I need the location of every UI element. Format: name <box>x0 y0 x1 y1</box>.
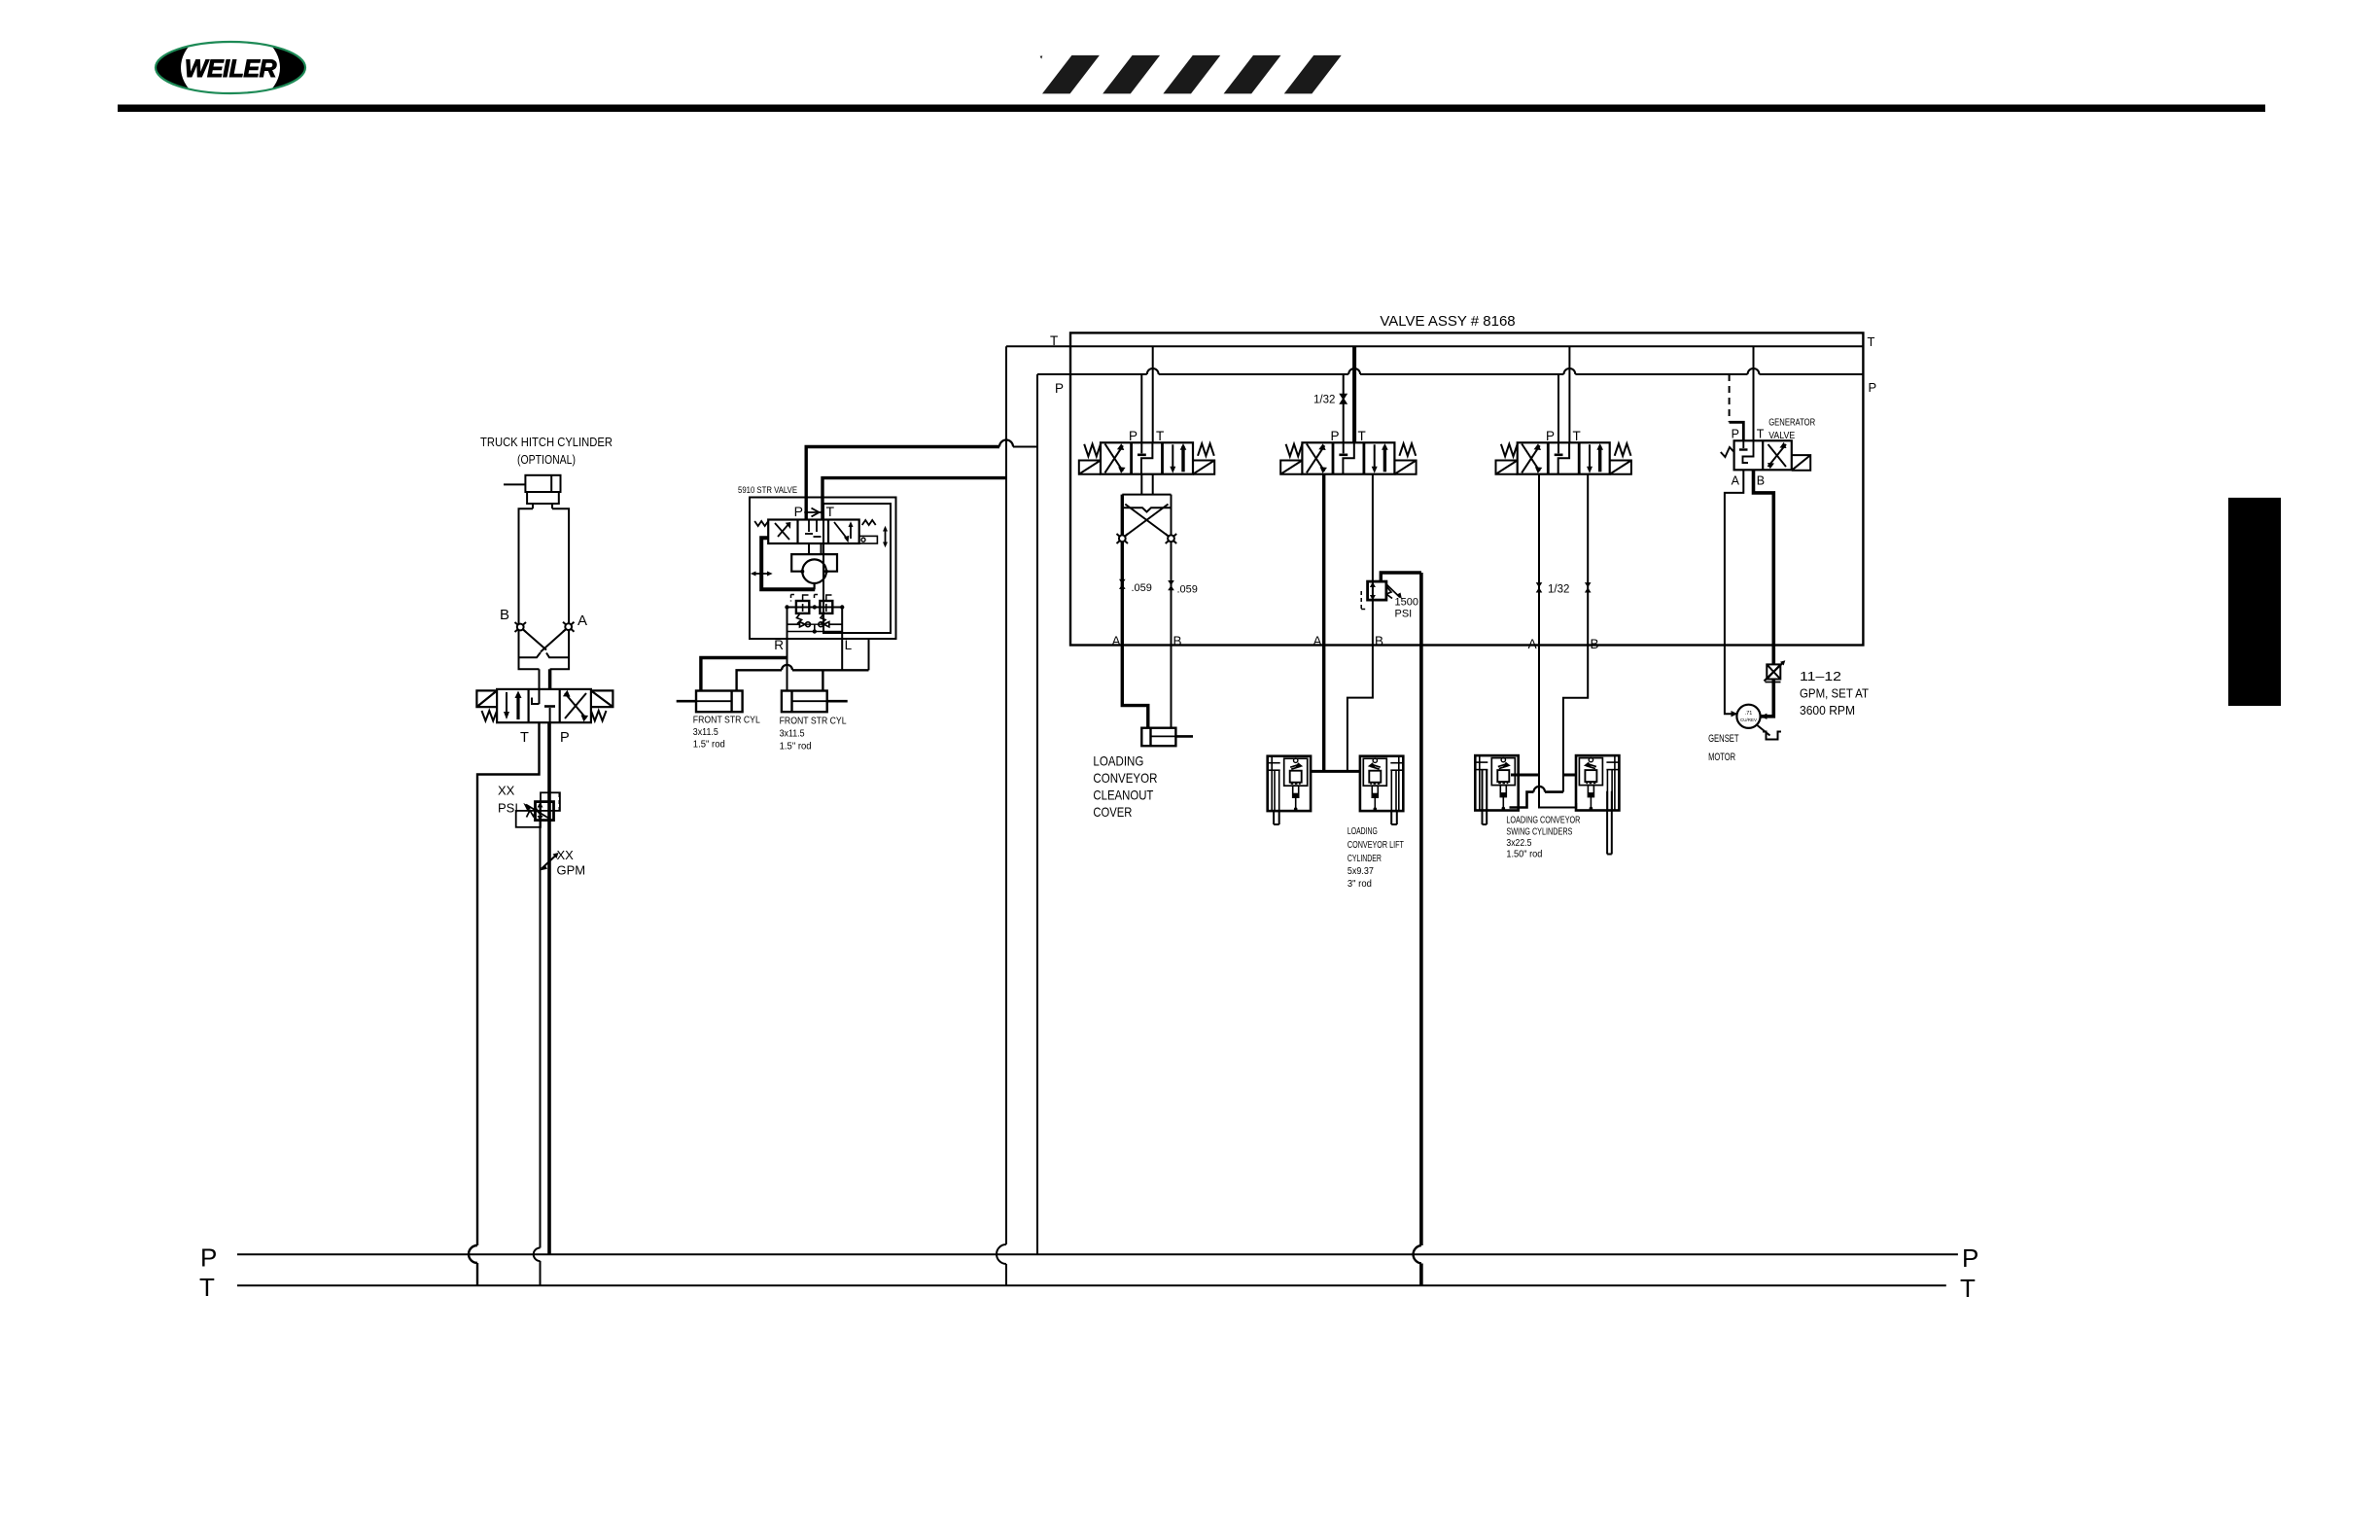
svg-text:3600 RPM: 3600 RPM <box>1800 703 1855 717</box>
V2 relief 1500 PSI <box>1361 573 1421 610</box>
right section arrows <box>834 521 854 542</box>
V4 pilot dashed from P rail <box>1729 374 1731 422</box>
V4 solenoid right <box>1792 455 1810 471</box>
label FRONT STR CYL right <box>780 717 847 752</box>
cleanout cylinder wires <box>1122 646 1148 728</box>
bottom tie line <box>787 631 843 633</box>
svg-text:P: P <box>1055 381 1064 396</box>
svg-text:L: L <box>845 638 853 652</box>
svg-text:5x9.37: 5x9.37 <box>1347 865 1374 877</box>
svg-text:B: B <box>1757 474 1765 488</box>
wire R port down <box>787 608 788 691</box>
swing wiring A tee to left block <box>1511 774 1539 777</box>
svg-text:COVER: COVER <box>1093 804 1132 820</box>
svg-text:VALVE ASSY # 8168: VALVE ASSY # 8168 <box>1380 313 1515 330</box>
svg-text:SWING CYLINDERS: SWING CYLINDERS <box>1506 826 1572 838</box>
V4 right cell cross arrows <box>1767 442 1787 469</box>
svg-text:T: T <box>1573 429 1581 443</box>
svg-text:3x22.5: 3x22.5 <box>1506 837 1531 849</box>
label GENSET MOTOR <box>1708 733 1739 763</box>
svg-text:P: P <box>1129 429 1137 443</box>
P rail top with hops <box>1037 373 1863 375</box>
lift cylinder block left <box>1268 756 1311 811</box>
svg-text:CONVEYOR: CONVEYOR <box>1093 770 1157 786</box>
swing wiring B tee to right block <box>1563 774 1576 777</box>
cleanout cover cylinder <box>1141 728 1193 747</box>
svg-text:1.5" rod: 1.5" rod <box>780 742 812 752</box>
svg-text:T: T <box>826 504 835 519</box>
relief drain wire to tank rail <box>540 821 542 1286</box>
double arrow on loop <box>751 572 773 577</box>
steering relief valve pair <box>791 595 833 624</box>
wire P feed to steering valve <box>806 447 999 520</box>
flow control 11-12 GPM <box>1765 660 1786 682</box>
svg-text:LOADING: LOADING <box>1347 825 1378 837</box>
P rail drop wire left <box>1036 374 1038 1254</box>
lift blocks connector <box>1311 770 1360 773</box>
springs below <box>797 613 802 624</box>
swing block left rod <box>1483 770 1487 824</box>
genset B wire thick <box>1754 470 1774 717</box>
right section crossed arrows <box>563 690 588 722</box>
V1 P wire <box>1140 374 1142 442</box>
svg-text:1500: 1500 <box>1395 597 1418 609</box>
svg-text:P: P <box>1869 380 1877 395</box>
genset motor <box>1736 705 1760 728</box>
directional valve truck hitch <box>476 689 612 722</box>
V2 relief drain long wire <box>1419 573 1423 1285</box>
pilot box right <box>859 536 878 543</box>
relief pilot dash <box>558 793 560 811</box>
label FRONT STR CYL left <box>693 716 760 751</box>
spring <box>1386 586 1392 599</box>
V2 P wire with orifice <box>1343 374 1345 442</box>
steering valve inner box <box>823 504 891 633</box>
svg-text:TRUCK HITCH CYLINDER: TRUCK HITCH CYLINDER <box>480 435 612 449</box>
V1 T wire <box>1152 346 1154 442</box>
spring right steering <box>862 520 876 525</box>
svg-text:3x11.5: 3x11.5 <box>693 727 718 738</box>
valve V1 loading conveyor cleanout <box>1079 442 1214 473</box>
gerotor feed stubs <box>809 543 822 554</box>
svg-text:5910 STR VALVE: 5910 STR VALVE <box>738 485 797 496</box>
V4 left cell blocked <box>1739 440 1754 463</box>
svg-text:MOTOR: MOTOR <box>1708 752 1735 763</box>
svg-text:B: B <box>500 607 509 623</box>
T rail drop wire left <box>1005 346 1007 1285</box>
relief spring <box>527 810 541 818</box>
svg-text:A: A <box>577 612 587 629</box>
valve V4 generator <box>1721 440 1810 471</box>
T rail bottom <box>237 1284 1946 1286</box>
svg-text:1/32: 1/32 <box>1313 395 1335 406</box>
drain loop to tank <box>1381 573 1421 581</box>
V3 B line with orifice <box>1563 474 1592 792</box>
svg-text:.059: .059 <box>1177 584 1198 596</box>
svg-text:P: P <box>560 730 570 746</box>
lift block left rod <box>1274 811 1279 824</box>
header slash marks <box>1040 55 1342 94</box>
thick feedback loop left <box>761 538 815 589</box>
spring left <box>482 711 498 720</box>
svg-text:A: A <box>1312 634 1321 648</box>
flow control XX GPM <box>540 853 559 871</box>
svg-text:A: A <box>1528 637 1537 651</box>
spring right <box>591 711 607 720</box>
black side tab <box>2228 498 2281 706</box>
genset A wire <box>1725 470 1743 714</box>
svg-text:P: P <box>1546 429 1555 443</box>
svg-text:PSI: PSI <box>1395 609 1413 620</box>
wire L port down <box>841 608 843 671</box>
V3 A line with orifice <box>1536 474 1577 808</box>
svg-text:FRONT STR CYL: FRONT STR CYL <box>693 716 760 726</box>
spring left steering <box>754 521 768 526</box>
truck hitch cylinder body <box>519 508 570 669</box>
V3 P wire <box>1557 374 1559 442</box>
V2 A line <box>1322 474 1325 772</box>
wire L2 from box bottom <box>868 639 870 670</box>
wire T return to tank rail <box>477 722 540 1285</box>
label TRUCK HITCH CYLINDER <box>480 435 612 467</box>
svg-text:1.50" rod: 1.50" rod <box>1506 849 1542 860</box>
steering gerotor motor <box>791 554 837 589</box>
port A check valve <box>563 622 575 632</box>
svg-text:XX: XX <box>498 784 515 798</box>
T rail top <box>1006 345 1863 347</box>
swing wiring B cross with hop <box>1510 792 1563 808</box>
V4 spring left <box>1721 447 1734 457</box>
dashed pilot left <box>1361 591 1367 610</box>
genset case drain <box>1757 725 1781 740</box>
V2 T wire thick <box>1352 346 1356 442</box>
svg-text:WEILER: WEILER <box>185 55 277 83</box>
svg-text:A: A <box>1111 634 1120 648</box>
V1 A line down with orifice <box>1119 542 1174 645</box>
svg-text:T: T <box>1960 1274 1976 1303</box>
left section arrows <box>775 522 790 540</box>
svg-text:GPM, SET AT: GPM, SET AT <box>1800 686 1869 701</box>
wire cylinder to valve <box>539 669 541 689</box>
valve V3 swing <box>1496 442 1631 473</box>
front steering cylinder left <box>677 691 743 713</box>
svg-text:GPM: GPM <box>557 863 586 878</box>
svg-text:1.5" rod: 1.5" rod <box>693 740 725 751</box>
swing cylinder block left <box>1475 755 1518 810</box>
svg-text:B: B <box>1375 634 1383 648</box>
svg-text:1/32: 1/32 <box>1548 584 1569 596</box>
wire rod-side link with hop <box>737 670 869 690</box>
steering control valve <box>754 520 888 548</box>
svg-text:PSI: PSI <box>498 801 518 816</box>
svg-text:FRONT STR CYL: FRONT STR CYL <box>780 717 847 727</box>
SECTION_TRUCK_HITCH <box>480 435 612 689</box>
steering check valves <box>787 622 843 634</box>
V4 T wire <box>1753 346 1755 440</box>
svg-text:T: T <box>1050 333 1058 348</box>
svg-text:P: P <box>1732 428 1739 441</box>
svg-text:11–12: 11–12 <box>1800 669 1841 683</box>
svg-text:CONVEYOR LIFT: CONVEYOR LIFT <box>1347 839 1404 851</box>
svg-text:LOADING: LOADING <box>1093 753 1143 769</box>
wire P supply from pressure rail <box>547 722 551 1254</box>
svg-text:A: A <box>1732 474 1740 488</box>
swing cylinder block right <box>1576 755 1619 810</box>
lift block right rod <box>1391 811 1397 824</box>
header rule bar <box>118 105 2265 113</box>
truck hitch cylinder piston head <box>525 475 560 492</box>
svg-text:CLEANOUT: CLEANOUT <box>1093 787 1153 803</box>
svg-text:P: P <box>1962 1243 1978 1273</box>
svg-text:.71: .71 <box>1745 711 1753 717</box>
cross lines inside cylinder <box>523 630 546 650</box>
svg-text:P: P <box>1330 429 1339 443</box>
label 11-12 GPM SET AT 3600 RPM <box>1800 669 1869 717</box>
P rail bottom <box>237 1253 1958 1255</box>
svg-text:(OPTIONAL): (OPTIONAL) <box>517 452 576 467</box>
svg-text:B: B <box>1591 637 1599 651</box>
double arrow right <box>883 526 888 547</box>
steering relief rail <box>785 605 844 609</box>
svg-text:GENSET: GENSET <box>1708 733 1739 745</box>
center section blocked <box>805 520 822 538</box>
svg-text:B: B <box>1173 634 1182 648</box>
steering valve outer box <box>750 498 896 640</box>
wire R to left cylinder <box>701 658 787 691</box>
svg-text:T: T <box>1358 429 1366 443</box>
svg-text:T: T <box>199 1273 215 1302</box>
label LOADING CONVEYOR LIFT CYLINDER <box>1347 825 1404 890</box>
label LOADING CONVEYOR SWING CYLINDERS <box>1506 815 1580 860</box>
center section blocked ports <box>532 689 555 722</box>
V3 T wire <box>1568 346 1570 442</box>
port B check valve <box>515 622 527 632</box>
lift cylinder block right <box>1360 756 1403 811</box>
V2 B line <box>1347 474 1373 772</box>
svg-text:T: T <box>1757 428 1765 441</box>
V1 check circles <box>1117 534 1129 543</box>
svg-text:3x11.5: 3x11.5 <box>780 729 805 740</box>
valve V2 lift <box>1280 442 1416 473</box>
svg-text:VALVE: VALVE <box>1768 430 1795 441</box>
label LOADING CONVEYOR CLEANOUT COVER <box>1093 753 1157 821</box>
svg-text:3" rod: 3" rod <box>1347 878 1372 890</box>
swing block right rod <box>1607 791 1612 855</box>
svg-text:P: P <box>794 504 803 519</box>
svg-text:LOADING CONVEYOR: LOADING CONVEYOR <box>1506 815 1580 826</box>
V1 check structure below <box>1117 474 1177 544</box>
V1 cross diagonals <box>1125 505 1169 537</box>
wire T return from steering valve <box>822 478 1006 520</box>
check valve between P and T <box>804 508 824 517</box>
solenoid box right <box>591 690 613 707</box>
svg-text:XX: XX <box>557 848 575 862</box>
valve assembly outer box <box>1070 332 1863 645</box>
svg-text:T: T <box>1156 429 1164 443</box>
solenoid box left <box>476 690 497 707</box>
svg-text:CYLINDER: CYLINDER <box>1347 853 1382 864</box>
svg-text:R: R <box>774 638 784 652</box>
svg-text:CU/REV: CU/REV <box>1740 717 1757 722</box>
pilot hooks dashed <box>791 595 821 602</box>
left section arrows <box>504 691 522 720</box>
relief valve XX PSI <box>516 792 560 827</box>
Weiler logo <box>156 29 305 107</box>
front steering cylinder right <box>782 691 848 713</box>
svg-text:P: P <box>200 1243 217 1273</box>
svg-text:.059: .059 <box>1132 582 1152 594</box>
svg-text:T: T <box>520 730 529 746</box>
svg-text:GENERATOR: GENERATOR <box>1768 417 1815 429</box>
svg-text:T: T <box>1868 334 1875 349</box>
